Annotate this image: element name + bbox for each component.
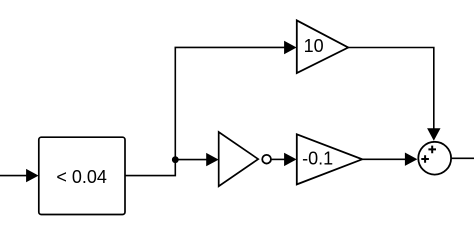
- svg-text:< 0.04: < 0.04: [56, 167, 107, 187]
- wire from gain 10 down to sum top input: [348, 48, 440, 141]
- junction node: [172, 156, 179, 163]
- NOT gate (inverter triangle with bubble): [219, 132, 271, 186]
- svg-text:10: 10: [304, 36, 324, 56]
- compare block "< 0.04": [39, 137, 125, 214]
- sum block (circle with plus signs): [418, 142, 451, 175]
- gain block -0.1: [297, 134, 362, 184]
- wire from junction to NOT gate: [175, 153, 218, 166]
- wire from NOT bubble to gain -0.1: [271, 153, 297, 166]
- wire input from left edge to compare block: [0, 169, 39, 182]
- svg-text:-0.1: -0.1: [302, 148, 333, 168]
- wire from gain -0.1 to sum left input: [362, 153, 417, 166]
- wire output from sum to right edge: [452, 157, 474, 159]
- wire from compare block up to gain 10 input: [125, 41, 297, 176]
- gain block 10: [297, 20, 348, 73]
